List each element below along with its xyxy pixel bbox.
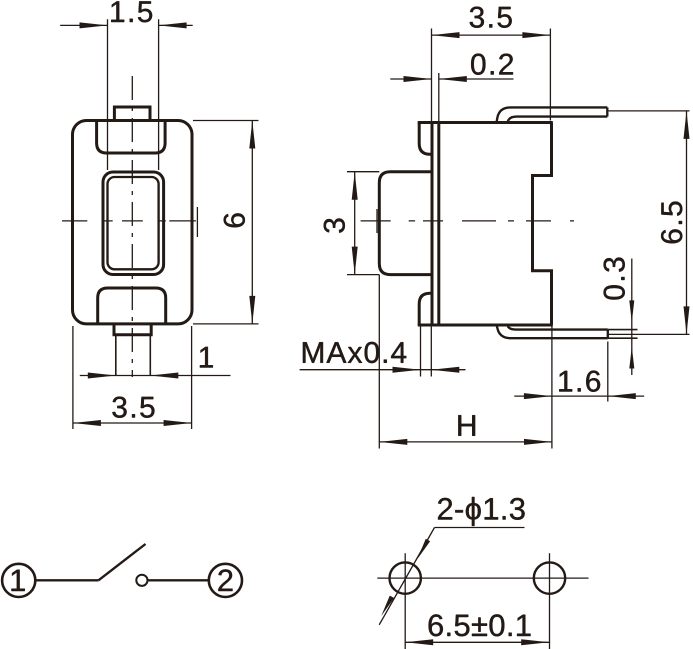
front view horizontal centerline <box>62 220 196 222</box>
dim 6 arrows <box>249 121 255 149</box>
dim 1 dimension line <box>80 375 231 377</box>
dim 1.5 text <box>111 1 152 22</box>
front view body outline <box>73 121 193 324</box>
dim MAx0.4 extension lines <box>421 327 432 377</box>
schematic wire right <box>148 579 209 581</box>
side view bottom flange <box>419 293 432 325</box>
dim 6.5pm0.1 dimension line <box>405 641 549 643</box>
dim 1 arrows <box>88 373 116 379</box>
front view centerline end tick <box>196 207 198 237</box>
side view bottom lead inner line <box>508 326 608 329</box>
dim 3.5 side dimension line <box>432 34 551 36</box>
dim H dimension line <box>379 441 552 443</box>
dim 0.3 lead line stubs <box>608 330 638 339</box>
side view top lead inner line <box>508 117 608 122</box>
side view push button <box>379 172 432 275</box>
schematic terminal 1 label <box>11 570 24 591</box>
side view bottom edge <box>418 324 553 327</box>
side view top edge <box>418 121 553 124</box>
footprint hole left <box>390 562 421 593</box>
side view bottom lead end cap <box>607 330 609 339</box>
footprint hole right <box>534 562 565 593</box>
schematic wire left <box>35 579 98 581</box>
dim H text <box>458 415 475 436</box>
dim 6.5 dimension line <box>686 111 688 335</box>
dim 1.5 arrows <box>80 22 108 28</box>
footprint crosshair left <box>377 553 588 649</box>
side view button center tick <box>376 209 378 233</box>
schematic terminal 2 label <box>218 569 232 591</box>
front view center button outer <box>103 172 164 275</box>
front view vertical centerline <box>131 76 133 377</box>
dim 3.5 front extension lines <box>73 326 192 429</box>
dim 3 extension lines <box>347 172 379 275</box>
side view cover line A <box>431 123 434 326</box>
dim MAx0.4 text <box>303 342 406 363</box>
dim 0.2 arrows <box>404 76 432 82</box>
footprint leader diagonal <box>379 528 434 625</box>
dim 0.2 dimension line <box>390 78 513 80</box>
footprint leader end arrow <box>379 596 394 618</box>
dim 1.6 extension lines <box>552 327 608 449</box>
dim 1.6 dimension line <box>514 395 644 397</box>
dim 6.5pm0.1 text <box>429 614 531 636</box>
dim 3.5 side text <box>470 7 512 28</box>
footprint leader text 2-phi1.3 <box>438 497 525 526</box>
front view top stem <box>114 107 150 121</box>
dim MAx0.4 left long extension <box>378 275 380 449</box>
front view bottom lead wires <box>116 335 151 376</box>
dim 6.5 arrows <box>684 111 690 139</box>
dim 0.2 text <box>471 54 513 75</box>
dim 3.5 front dimension line <box>73 422 192 424</box>
footprint leader underline <box>435 527 525 529</box>
dim 3.5 front arrows <box>73 420 101 426</box>
front view bottom notch <box>98 288 166 323</box>
front view bottom lead collar <box>114 324 151 335</box>
front view top notch <box>97 121 166 153</box>
dim 6.5 text <box>661 202 682 244</box>
dim 3 dimension line <box>354 172 356 275</box>
dim 0.2 extension line <box>438 73 440 123</box>
dim 6 text <box>224 213 245 227</box>
dim 6 dimension line <box>251 121 253 324</box>
dim 6 extension lines <box>193 121 259 324</box>
side view top lead outer line <box>497 107 608 122</box>
schematic terminal 2 circle <box>209 564 242 597</box>
dim 0.3 arrow lines <box>631 259 633 376</box>
side view right profile with steps <box>533 123 552 326</box>
dim 0.3 arrows <box>629 300 634 322</box>
footprint leader arrow <box>415 539 430 561</box>
dim MAx0.4 arrows <box>393 367 421 373</box>
dim 3.5 side extension lines <box>432 29 551 123</box>
side view bottom lead outer line <box>497 325 608 338</box>
dim 1 text <box>200 347 213 368</box>
dim 3.5 side arrows <box>432 32 460 38</box>
dim 1.6 arrows <box>524 393 552 399</box>
schematic contact circle <box>136 575 147 586</box>
dim MAx0.4 dimension line <box>300 369 466 371</box>
schematic terminal 1 circle <box>2 564 35 597</box>
dim 3.5 front text <box>112 397 154 418</box>
dim 3 text <box>324 218 345 232</box>
dim 3 arrows <box>352 172 358 200</box>
side view horizontal centerline <box>361 220 574 222</box>
dim H arrows <box>379 439 407 445</box>
side view cover line B <box>437 123 440 326</box>
dim 1.6 text <box>559 371 600 392</box>
dim 6.5pm0.1 arrows <box>405 639 433 645</box>
schematic switch arm <box>99 544 146 580</box>
dim 6.5 extension lines <box>609 111 690 335</box>
dim 1.5 dimension line <box>60 24 193 26</box>
side view top flange <box>419 123 432 155</box>
footprint crosshair right <box>549 553 551 649</box>
side view top lead end cap <box>606 107 608 116</box>
dim 0.3 text <box>604 258 625 300</box>
front view center button inner <box>108 177 159 269</box>
dim 1.5 extension lines <box>108 19 159 170</box>
